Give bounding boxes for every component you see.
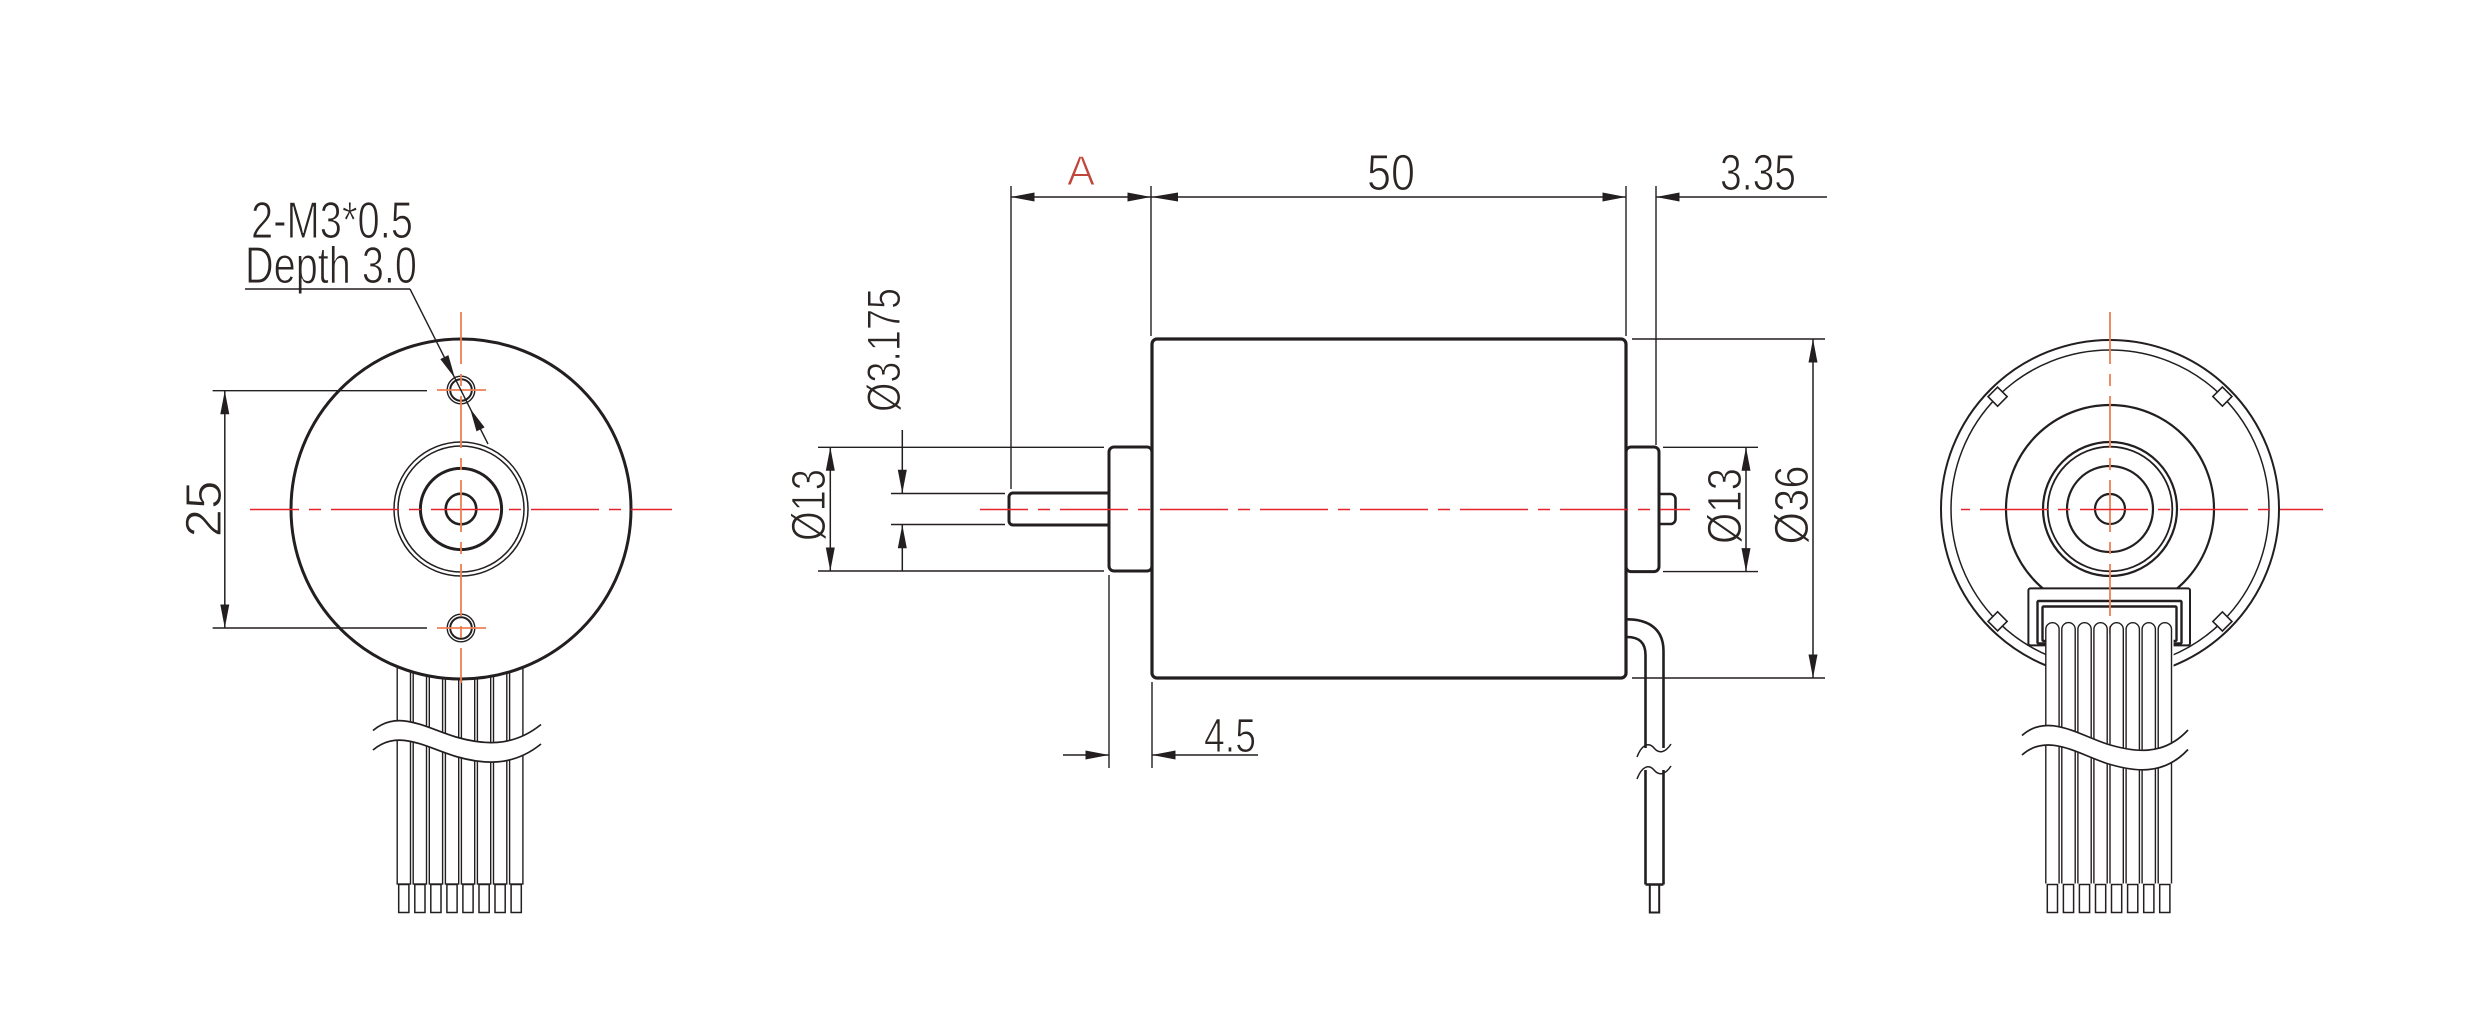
- svg-text:Ø36: Ø36: [1766, 466, 1819, 545]
- svg-text:25: 25: [175, 481, 232, 538]
- leader arrow from boss ring: [470, 408, 485, 431]
- front view cable break symbol: [373, 721, 541, 763]
- leader line: [410, 289, 488, 444]
- svg-text:Ø3.175: Ø3.175: [857, 288, 910, 412]
- rear view boss inner ring: [2048, 447, 2173, 572]
- front view bearing circle: [420, 468, 501, 549]
- front view wire end pins: [399, 885, 522, 913]
- rear view bearing circle: [2067, 466, 2153, 552]
- front view vertical centerline: [460, 306, 462, 683]
- mounting hole bottom: [447, 614, 475, 642]
- side view horizontal centerline: [980, 509, 1690, 511]
- side view motor body: [1152, 339, 1626, 678]
- rear view stator circle: [2006, 405, 2214, 613]
- dimension 3.35 extension lines: [1625, 186, 1627, 336]
- rear view shaft circle: [2095, 494, 2125, 524]
- svg-text:Depth 3.0: Depth 3.0: [245, 237, 417, 295]
- svg-text:3.35: 3.35: [1720, 144, 1796, 201]
- rear view connector inner frame: [2038, 601, 2182, 644]
- hole crosshair top: [437, 389, 486, 391]
- rear view connector inner frame 2: [2043, 607, 2177, 642]
- rear view vertical centerline: [2109, 302, 2111, 661]
- rear view boss outer ring: [2043, 442, 2177, 576]
- dimension dia 3.175 extension lines: [891, 493, 1005, 495]
- hole crosshair bottom: [437, 627, 486, 629]
- rear view horizontal centerline: [1961, 509, 2323, 511]
- dimension 4.5 lines and arrows: [1063, 754, 1109, 756]
- dimension dia 36 line and arrows: [1812, 339, 1814, 678]
- rear view ribbon cable wires: [2046, 623, 2172, 884]
- front view shaft circle: [446, 494, 477, 525]
- dimension 3.35 line and arrow: [1656, 196, 1827, 198]
- svg-text:4.5: 4.5: [1204, 710, 1256, 763]
- side view rear shaft stub: [1655, 494, 1676, 524]
- side view wire stripped end: [1650, 885, 1659, 913]
- dimension A line and arrows: [1011, 196, 1151, 198]
- rear view rim notches: [2213, 612, 2232, 631]
- front view ribbon cable wires: [397, 640, 523, 884]
- svg-text:A: A: [1067, 147, 1095, 194]
- side view wire break symbol: [1641, 748, 1668, 770]
- rear view connector housing: [2028, 588, 2190, 645]
- front view boss inner ring: [398, 446, 524, 572]
- rear view ribbon backing: [2046, 634, 2174, 884]
- front view horizontal centerline: [250, 509, 672, 511]
- dimension 25 extension lines: [213, 390, 427, 392]
- leader underline: [245, 288, 410, 290]
- side view front boss: [1109, 447, 1152, 571]
- rear view outer circle: [1941, 340, 2279, 678]
- rear view wire end pins: [2047, 885, 2170, 913]
- side view lead wire: [1627, 619, 1664, 884]
- side view shaft: [1009, 493, 1115, 525]
- rear view cable break symbol: [2022, 725, 2188, 769]
- svg-text:Ø13: Ø13: [1699, 468, 1752, 544]
- dimension dia 36 extension lines: [1632, 338, 1825, 340]
- dimension dia 13 left extension lines: [818, 446, 1104, 448]
- dimension 4.5 extension lines: [1108, 575, 1110, 768]
- dimension 50 line and arrows: [1151, 196, 1626, 198]
- front view boss outer ring: [394, 442, 528, 576]
- leader arrow at hole: [440, 355, 455, 378]
- side view rear boss: [1626, 447, 1659, 572]
- dimension dia 13 left line and arrows: [829, 447, 831, 571]
- dimension dia 3.175 lines and arrows: [901, 430, 903, 493]
- dimension 25 line and arrows: [224, 391, 226, 628]
- dimension A extension lines: [1010, 186, 1012, 489]
- mounting hole top: [447, 376, 475, 404]
- svg-text:Ø13: Ø13: [783, 469, 836, 541]
- dimension dia 13 right extension lines: [1663, 446, 1758, 448]
- dimension dia 13 right line and arrows: [1745, 447, 1747, 571]
- rear view inner rim circle: [1951, 350, 2269, 668]
- svg-text:50: 50: [1367, 144, 1415, 201]
- front view motor body circle: [291, 339, 631, 679]
